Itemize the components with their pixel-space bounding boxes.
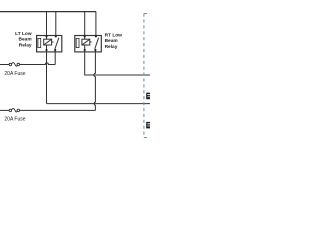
fuse F1 element circles and wave xyxy=(9,63,12,66)
wire LT switch output pin 87 down to fuse wire xyxy=(54,50,56,65)
wire LT relay coil feed pin 86 xyxy=(46,12,48,40)
node dot RT coil bottom xyxy=(84,49,86,51)
svg-text:Beam: Beam xyxy=(19,37,32,43)
svg-text:20A Fuse: 20A Fuse xyxy=(4,117,25,123)
wire LT relay switch feed pin 30 xyxy=(55,12,57,37)
wire lower bus horizontal 2 with hop over RT switch wire xyxy=(47,103,151,105)
switch blade RT relay xyxy=(95,38,99,49)
node dot RT switch top contact xyxy=(95,35,97,37)
node dot RT coil top xyxy=(84,35,86,37)
connector pin label E (clipped) xyxy=(146,93,151,100)
wire bus drop to RT relay switch pin 30 xyxy=(95,12,97,37)
wire LT coil output down to lower bus xyxy=(46,45,48,104)
svg-text:Relay: Relay xyxy=(105,44,118,50)
fuse F1 wire 20A with hop over LT coil wire xyxy=(0,64,9,66)
relay K1 LT Low Beam Relay box xyxy=(37,36,62,52)
node dot LT coil top xyxy=(45,35,47,37)
node dot RT switch bottom pin xyxy=(94,49,96,51)
svg-text:20A Fuse: 20A Fuse xyxy=(4,71,25,77)
node dot LT coil bottom xyxy=(45,49,47,51)
relay K2 RT Low Beam Relay box xyxy=(75,36,102,52)
node dot LT switch bottom pin xyxy=(54,49,56,51)
fuse F2 wire 20A xyxy=(0,109,9,111)
connector pin label E (clipped, lower) xyxy=(146,122,151,128)
svg-text:LT Low: LT Low xyxy=(15,31,32,37)
wire RT coil output down then right to connector (horizontal 1) xyxy=(85,45,150,75)
svg-text:Relay: Relay xyxy=(19,43,32,49)
linkage dash LT relay xyxy=(52,41,55,43)
fuse F2 element circles and wave xyxy=(9,109,12,112)
wire RT relay coil feed pin 86 xyxy=(84,12,86,40)
connector pin rect on LT relay xyxy=(38,38,41,47)
connector pin rect on RT relay xyxy=(76,38,79,47)
connector boundary dashed line xyxy=(144,14,150,138)
wire RT switch output pin 87 down with hop over horizontal 1 xyxy=(94,50,96,110)
svg-text:RT Low: RT Low xyxy=(105,32,123,38)
coil LT relay xyxy=(44,39,52,45)
svg-text:Beam: Beam xyxy=(105,38,118,44)
wire top battery bus xyxy=(0,11,96,13)
switch blade LT relay xyxy=(55,38,59,49)
node dot LT switch top contact xyxy=(55,35,57,37)
coil RT relay xyxy=(82,39,90,45)
linkage dash RT relay xyxy=(90,41,93,43)
